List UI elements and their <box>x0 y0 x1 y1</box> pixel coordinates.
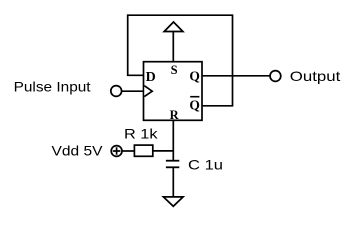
svg-text:Pulse Input: Pulse Input <box>14 79 91 95</box>
svg-text:S: S <box>171 63 178 77</box>
capacitor C1 bottom plate <box>166 166 179 168</box>
svg-text:D: D <box>146 70 156 85</box>
wire: R pin down to RC node <box>172 120 174 160</box>
svg-text:R 1k: R 1k <box>124 126 159 142</box>
wire: Vdd symbol to S pin <box>172 32 174 62</box>
ground symbol (open down triangle) <box>163 197 183 206</box>
overline of Qbar <box>190 96 199 98</box>
wire: Q pin to output terminal <box>202 75 270 77</box>
wire: feedback right vertical from Qbar <box>232 14 234 105</box>
capacitor C1 top plate <box>166 160 179 162</box>
wire: feedback top rail <box>128 14 233 16</box>
wire: pulse input terminal to clock pin <box>121 90 143 92</box>
output terminal <box>270 71 281 82</box>
pulse input terminal <box>111 86 122 97</box>
svg-text:Q: Q <box>189 98 200 113</box>
svg-text:R: R <box>170 108 180 122</box>
wire: Vdd terminal to resistor <box>122 150 134 152</box>
flip-flop U1 body <box>144 62 203 121</box>
svg-text:C 1u: C 1u <box>188 157 223 173</box>
resistor R1 body <box>134 145 152 156</box>
wire: feedback left vertical down to D pin <box>128 14 144 75</box>
svg-text:Output: Output <box>290 68 341 84</box>
svg-text:Q: Q <box>189 68 200 83</box>
wire: resistor to RC node <box>153 150 174 152</box>
Vdd supply terminal (circle with plus) <box>111 146 122 157</box>
wire: Qbar pin to feedback vertical <box>202 105 233 107</box>
clock wedge on CLK pin <box>144 86 152 97</box>
svg-text:Vdd 5V: Vdd 5V <box>52 142 104 158</box>
power symbol Vdd (open up triangle) <box>164 22 183 32</box>
wire: capacitor to ground <box>172 167 174 197</box>
